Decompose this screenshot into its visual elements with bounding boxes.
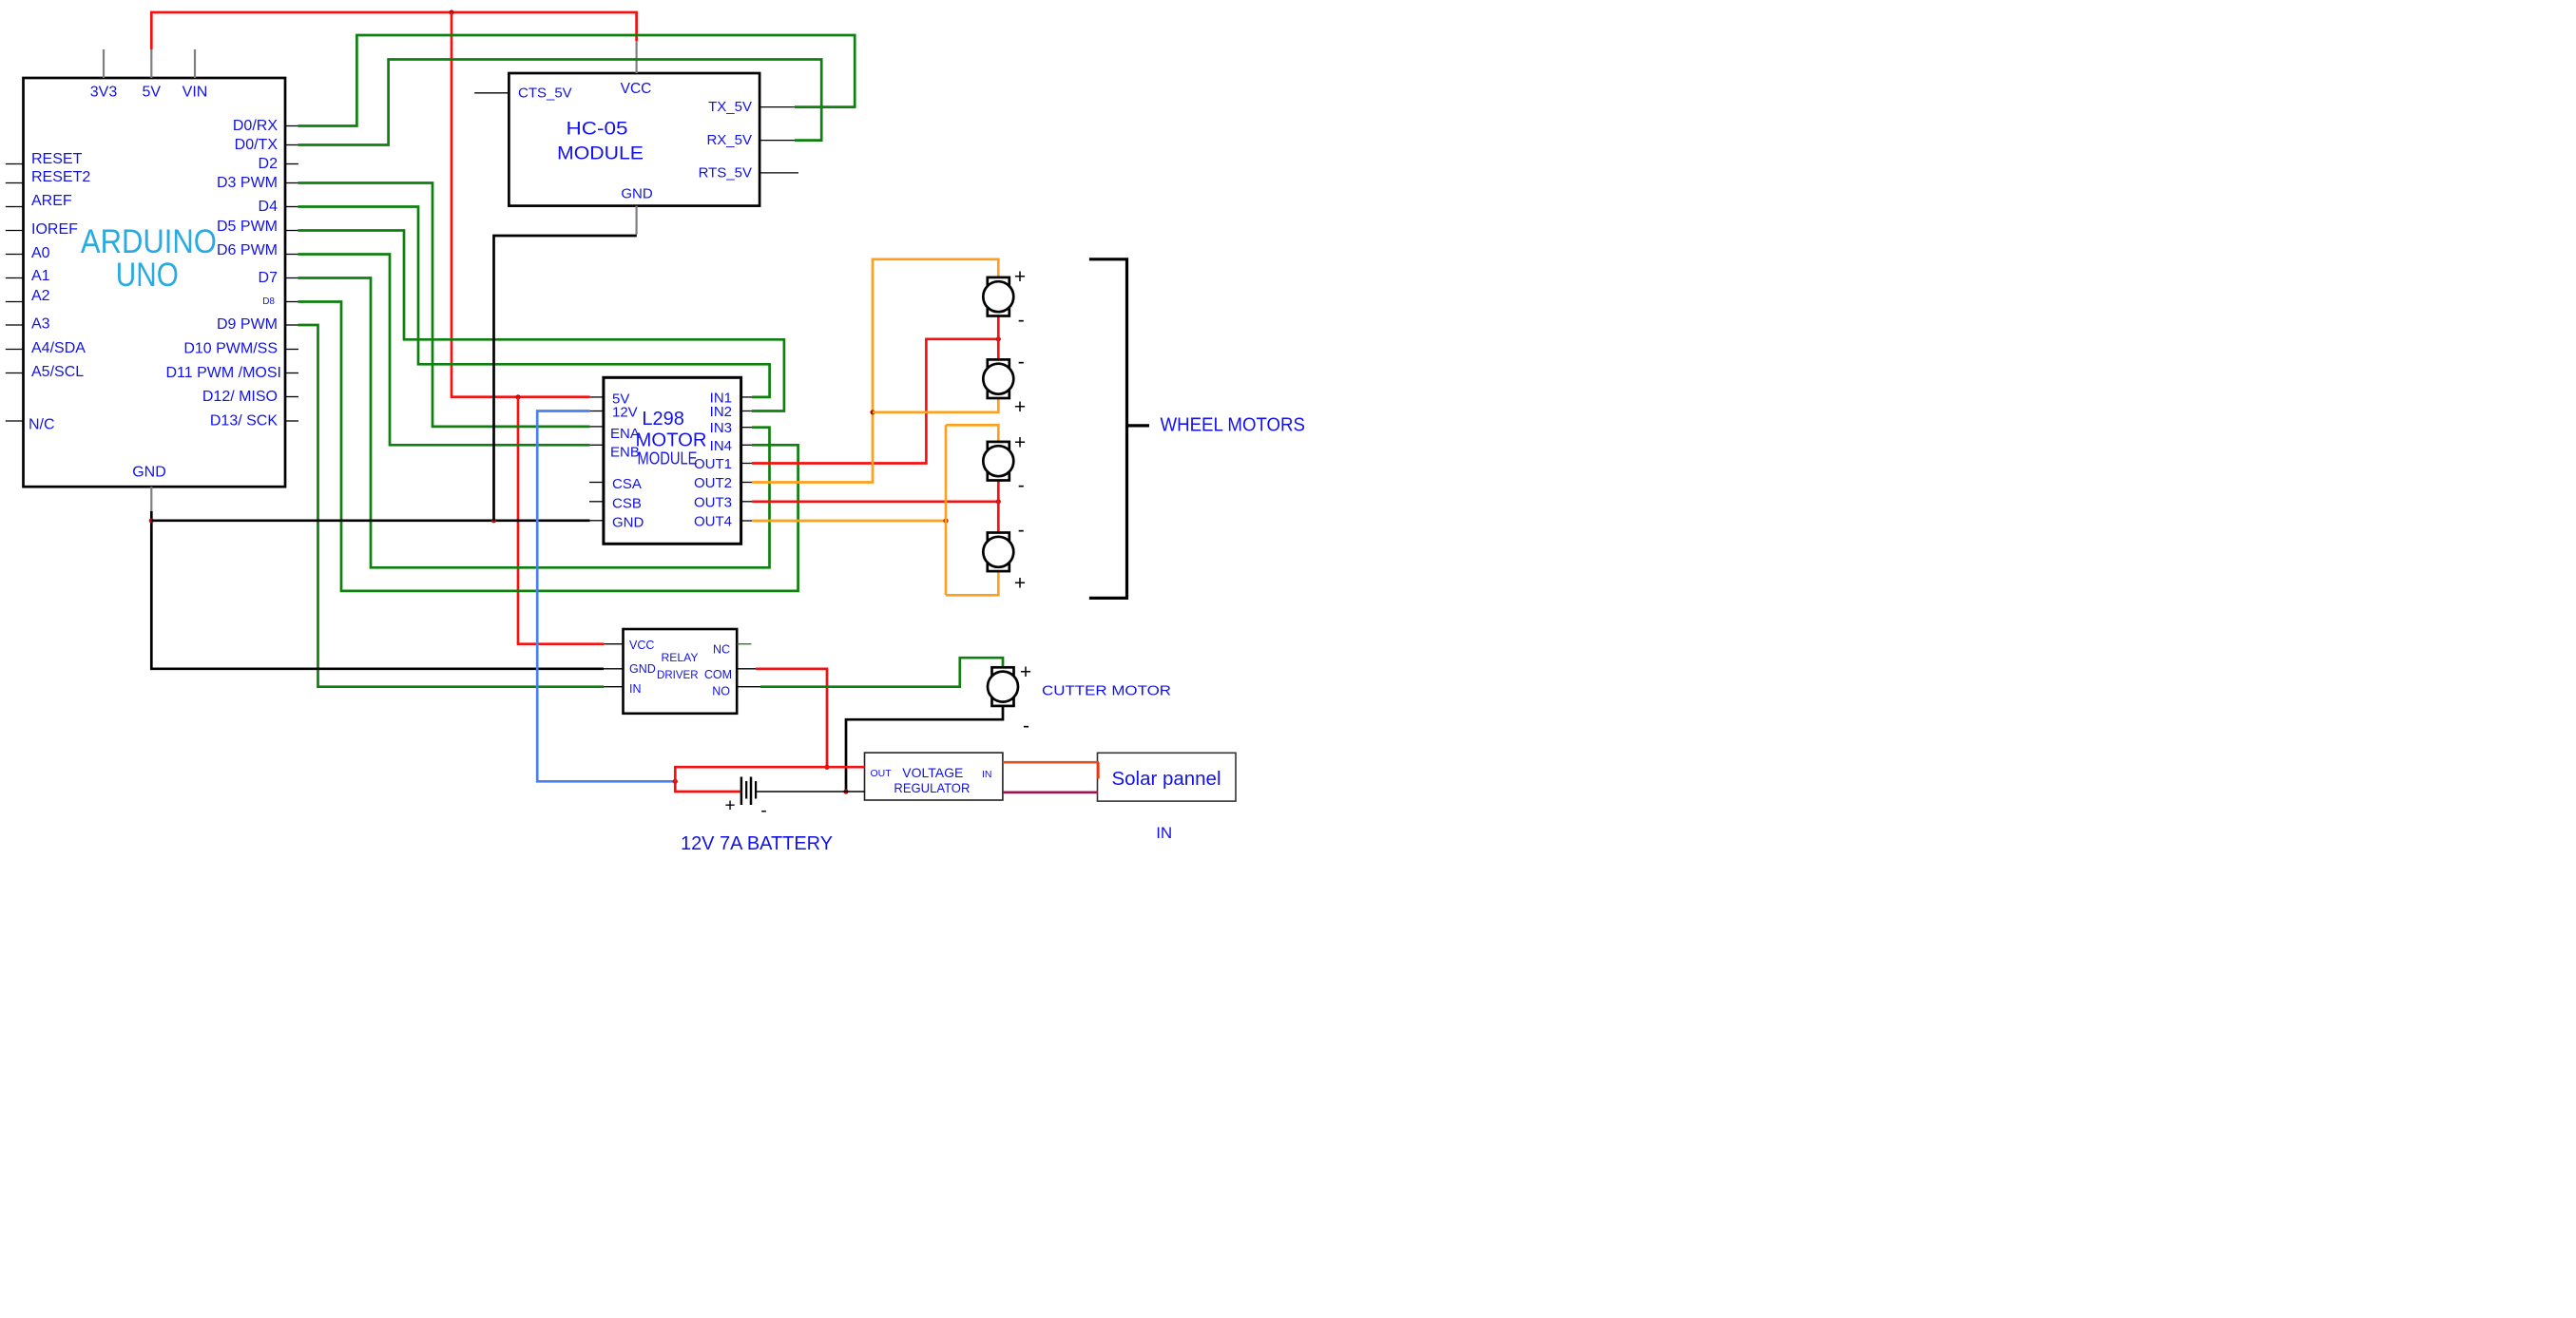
pin stub CSA bbox=[589, 482, 604, 484]
battery plate long 2 bbox=[750, 777, 753, 806]
svg-text:A3: A3 bbox=[31, 316, 50, 333]
svg-text:D12/ MISO: D12/ MISO bbox=[202, 389, 278, 405]
motor M2 body bbox=[983, 364, 1013, 394]
pin stub 3V3 bbox=[103, 49, 105, 78]
pin stub NO bbox=[737, 686, 760, 688]
svg-text:VIN: VIN bbox=[183, 85, 208, 101]
junction GND arduino bbox=[149, 518, 154, 523]
battery plate short 2 bbox=[755, 781, 757, 799]
svg-text:D8: D8 bbox=[262, 296, 275, 307]
svg-text:D4: D4 bbox=[259, 199, 279, 215]
wire red 5V arduino to HC-05 VCC bbox=[151, 12, 636, 49]
module box U1 ARDUINO UNO bbox=[24, 78, 286, 487]
module box Solar pannel bbox=[1098, 753, 1237, 801]
wire green D4 to IN1 bbox=[298, 207, 770, 397]
wire green D0/TX to RX_5V bbox=[298, 60, 822, 145]
pin stub D0/TX bbox=[285, 144, 298, 146]
svg-text:RESET2: RESET2 bbox=[31, 169, 90, 185]
pin stub IOREF bbox=[6, 230, 24, 232]
svg-text:VCC: VCC bbox=[621, 81, 652, 97]
battery plate short 1 bbox=[745, 781, 747, 799]
svg-text:D7: D7 bbox=[259, 270, 279, 286]
motor M2 plates bbox=[988, 359, 1009, 367]
junction COM battery bbox=[824, 765, 829, 770]
svg-text:A0: A0 bbox=[31, 245, 50, 261]
wire green D7 to IN3 bbox=[298, 278, 770, 568]
pin stub GND (arduino bottom) bbox=[150, 487, 152, 511]
pin stub RX_5V bbox=[759, 140, 795, 142]
svg-text:COM: COM bbox=[704, 668, 732, 681]
pin stub OUT1 bbox=[741, 463, 752, 465]
pin stub A2 bbox=[6, 301, 24, 303]
svg-text:VCC: VCC bbox=[629, 639, 654, 652]
svg-text:OUT4: OUT4 bbox=[694, 514, 732, 530]
junction OUT4 bbox=[943, 518, 948, 523]
svg-text:CUTTER MOTOR: CUTTER MOTOR bbox=[1042, 683, 1171, 699]
pin stub OUT3 bbox=[741, 501, 752, 503]
svg-text:RESET: RESET bbox=[31, 151, 83, 167]
svg-text:D11 PWM /MOSI: D11 PWM /MOSI bbox=[166, 365, 282, 381]
pin stub IN (relay) bbox=[604, 686, 624, 688]
pin stub CTS_5V bbox=[474, 92, 509, 94]
wire orange branch to motor2+ bbox=[873, 398, 998, 412]
svg-text:+: + bbox=[724, 796, 735, 816]
pin stub RTS_5V bbox=[759, 172, 798, 174]
svg-text:MODULE: MODULE bbox=[557, 144, 644, 164]
svg-text:DRIVER: DRIVER bbox=[657, 670, 699, 681]
svg-text:CSA: CSA bbox=[612, 476, 642, 492]
svg-text:+: + bbox=[1014, 266, 1026, 288]
pin stub OUT4 bbox=[741, 520, 752, 522]
svg-text:5V: 5V bbox=[143, 85, 162, 101]
pin stub D3 bbox=[285, 182, 298, 184]
svg-text:MOTOR: MOTOR bbox=[636, 430, 707, 450]
svg-text:12V 7A BATTERY: 12V 7A BATTERY bbox=[681, 833, 833, 854]
cutter motor body bbox=[988, 672, 1018, 702]
svg-text:+: + bbox=[1020, 661, 1031, 683]
wire purple regulator IN- to solar bbox=[1003, 791, 1098, 793]
bracket mid tick bbox=[1127, 424, 1150, 427]
svg-text:+: + bbox=[1014, 573, 1026, 595]
svg-text:HC-05: HC-05 bbox=[567, 120, 628, 140]
wire orange to motor3+ bbox=[946, 425, 998, 442]
bracket WHEEL MOTORS bbox=[1089, 259, 1127, 599]
svg-text:OUT3: OUT3 bbox=[694, 494, 732, 510]
svg-text:OUT1: OUT1 bbox=[694, 456, 732, 472]
svg-text:REGULATOR: REGULATOR bbox=[894, 780, 970, 795]
svg-text:A1: A1 bbox=[31, 268, 50, 284]
svg-text:MODULE: MODULE bbox=[638, 449, 698, 468]
motor M3 plates bbox=[988, 442, 1009, 449]
svg-text:TX_5V: TX_5V bbox=[708, 99, 752, 115]
pin stub VCC (HC-05) bbox=[635, 41, 637, 73]
battery plate long 1 bbox=[740, 777, 743, 806]
wire green D6 to ENB bbox=[298, 255, 590, 446]
pin stub D11 bbox=[285, 372, 298, 374]
wire black cutter motor minus to battery- bbox=[846, 706, 1003, 792]
wire red solar edge drop bbox=[1097, 762, 1100, 778]
svg-text:Solar pannel: Solar pannel bbox=[1112, 769, 1221, 790]
pin stub VCC (relay) bbox=[604, 643, 624, 645]
junction blue at battery red bbox=[673, 779, 678, 784]
junction cutter minus battery bbox=[843, 789, 848, 793]
pin stub GND (HC-05) bbox=[635, 206, 637, 235]
pin stub D9 bbox=[285, 324, 298, 326]
svg-text:D5 PWM: D5 PWM bbox=[217, 219, 278, 235]
svg-text:-: - bbox=[1018, 520, 1025, 542]
svg-text:IN: IN bbox=[1156, 824, 1172, 842]
svg-text:CSB: CSB bbox=[612, 495, 642, 511]
pin stub GND (L298) bbox=[590, 520, 604, 522]
wire black HC-05 GND down bbox=[494, 236, 637, 521]
svg-text:N/C: N/C bbox=[29, 417, 55, 433]
svg-text:UNO: UNO bbox=[116, 256, 179, 294]
svg-text:OUT: OUT bbox=[871, 768, 893, 779]
wire red OUT1 to motors 1-2 bbox=[752, 339, 998, 464]
junction OUT3 motor link bbox=[996, 499, 1001, 504]
pin stub GND (relay) bbox=[604, 668, 624, 670]
pin stub D2 bbox=[285, 163, 298, 165]
wire black GND arduino down to relay GND bbox=[151, 511, 604, 669]
pin stub IN4 bbox=[741, 444, 752, 446]
wire green D3 to ENA bbox=[298, 183, 590, 427]
pin stub TX_5V bbox=[759, 106, 795, 108]
pin stub ENA bbox=[590, 426, 604, 428]
svg-text:AREF: AREF bbox=[31, 193, 72, 209]
wire dark orange regulator IN+ to solar bbox=[1003, 761, 1099, 764]
pin stub VIN bbox=[194, 49, 196, 78]
wire green D9 to relay IN bbox=[298, 325, 605, 687]
wire green D0/RX to TX_5V bbox=[298, 35, 855, 126]
svg-text:-: - bbox=[1023, 716, 1029, 737]
svg-text:L298: L298 bbox=[642, 409, 684, 430]
pin stub OUT2 bbox=[741, 482, 752, 484]
svg-text:D2: D2 bbox=[259, 156, 279, 172]
wire green D5 to IN2 bbox=[298, 231, 784, 411]
pin stub IN2 bbox=[741, 411, 752, 412]
svg-text:ARDUINO: ARDUINO bbox=[81, 222, 217, 260]
svg-text:RELAY: RELAY bbox=[662, 653, 699, 664]
svg-text:GND: GND bbox=[629, 662, 656, 676]
pin stub IN3 bbox=[741, 427, 752, 429]
wire orange vertical motor3+/motor4+ bbox=[945, 425, 948, 595]
svg-text:A4/SDA: A4/SDA bbox=[31, 340, 86, 356]
svg-text:D10 PWM/SS: D10 PWM/SS bbox=[183, 341, 278, 357]
wire green relay NO to cutter motor bbox=[760, 658, 1003, 687]
pin stub RESET2 bbox=[6, 182, 24, 184]
svg-text:D0/TX: D0/TX bbox=[235, 137, 279, 153]
svg-text:+: + bbox=[1014, 396, 1026, 418]
pin stub A1 bbox=[6, 277, 24, 279]
pin stub D8 bbox=[285, 301, 298, 303]
svg-text:-: - bbox=[1018, 351, 1025, 372]
wire black GND horizontal to L298 GND bbox=[151, 519, 589, 522]
svg-text:IN: IN bbox=[982, 769, 992, 780]
pin stub A0 bbox=[6, 254, 24, 256]
pin stub D10 bbox=[285, 349, 298, 351]
module box VOLTAGE REGULATOR bbox=[865, 753, 1003, 800]
svg-text:IN: IN bbox=[629, 682, 642, 696]
svg-text:IN2: IN2 bbox=[710, 404, 732, 420]
pin stub ENB bbox=[590, 444, 604, 446]
junction 5V top bbox=[449, 10, 453, 14]
svg-text:D0/RX: D0/RX bbox=[233, 118, 278, 134]
wire red battery plus net bbox=[675, 767, 864, 792]
junction 5V at L298 row bbox=[515, 394, 520, 399]
pin stub CSB bbox=[589, 501, 604, 503]
svg-text:D9 PWM: D9 PWM bbox=[217, 316, 278, 333]
svg-text:D6 PWM: D6 PWM bbox=[217, 242, 278, 258]
wire orange OUT4 horizontal bbox=[752, 520, 946, 523]
cutter motor plates bbox=[992, 667, 1014, 675]
wire orange OUT2 to motor1+ bbox=[752, 259, 998, 483]
svg-text:-: - bbox=[1018, 475, 1025, 497]
svg-text:A2: A2 bbox=[31, 288, 50, 304]
svg-text:-: - bbox=[1018, 310, 1025, 332]
pin stub 12V (L298) bbox=[590, 411, 604, 412]
wire red 5V drop to L298 bbox=[452, 12, 590, 397]
wire orange to motor4+ bbox=[946, 571, 998, 595]
junction OUT2 branch bbox=[870, 410, 875, 414]
module box L298 bbox=[604, 377, 741, 544]
wire red relay COM down to battery+ bbox=[756, 669, 827, 768]
svg-text:NO: NO bbox=[712, 685, 730, 698]
svg-text:D13/ SCK: D13/ SCK bbox=[210, 413, 278, 430]
wire red OUT3 to motors 3-4 bbox=[752, 500, 998, 503]
wire red motor3- to motor4- link bbox=[997, 481, 1000, 533]
svg-text:RX_5V: RX_5V bbox=[706, 132, 752, 148]
svg-text:CTS_5V: CTS_5V bbox=[518, 85, 572, 101]
svg-text:-: - bbox=[760, 801, 766, 821]
svg-text:IN4: IN4 bbox=[710, 438, 732, 454]
pin stub D4 bbox=[285, 206, 298, 208]
wire red motor1- to motor2- link bbox=[997, 316, 1000, 360]
svg-text:IN3: IN3 bbox=[710, 420, 732, 436]
pin stub 5V bbox=[150, 49, 152, 78]
wire blue 12V to battery bbox=[537, 411, 675, 782]
svg-text:3V3: 3V3 bbox=[90, 85, 118, 101]
pin stub N/C bbox=[6, 420, 24, 422]
pin stub AREF bbox=[6, 206, 24, 208]
junction OUT1 motor link bbox=[996, 336, 1001, 341]
motor M3 body bbox=[983, 446, 1013, 476]
svg-text:VOLTAGE: VOLTAGE bbox=[902, 765, 963, 780]
svg-text:ENA: ENA bbox=[610, 426, 640, 442]
pin stub D0/RX bbox=[285, 125, 298, 127]
pin stub A3 bbox=[6, 324, 24, 326]
pin stub D13 bbox=[285, 420, 298, 422]
junction GND HC05 bbox=[491, 518, 496, 523]
svg-text:OUT2: OUT2 bbox=[694, 475, 732, 491]
motor M1 plates bbox=[988, 277, 1009, 285]
svg-text:GND: GND bbox=[132, 465, 166, 481]
pin stub RESET bbox=[6, 163, 24, 165]
module box HC-05 bbox=[509, 73, 759, 206]
pin stub D5 bbox=[285, 230, 298, 232]
svg-text:GND: GND bbox=[621, 186, 653, 202]
pin stub D7 bbox=[285, 277, 298, 279]
motor M4 plates bbox=[988, 533, 1009, 541]
svg-text:GND: GND bbox=[612, 514, 644, 530]
wire green D8 to IN4 bbox=[298, 302, 798, 591]
wire red 5V branch to relay VCC bbox=[518, 397, 604, 644]
motor M1 body bbox=[983, 281, 1013, 312]
svg-text:A5/SCL: A5/SCL bbox=[31, 364, 84, 380]
pin stub A4/SDA bbox=[6, 349, 24, 351]
svg-text:NC: NC bbox=[713, 643, 730, 657]
svg-text:D3 PWM: D3 PWM bbox=[217, 175, 278, 191]
motor M4 body bbox=[983, 537, 1013, 567]
svg-text:WHEEL MOTORS: WHEEL MOTORS bbox=[1161, 414, 1306, 435]
pin stub A5/SCL bbox=[6, 372, 24, 374]
pin stub D6 bbox=[285, 254, 298, 256]
wire black battery minus to regulator bbox=[757, 791, 865, 793]
svg-text:ENB: ENB bbox=[610, 445, 640, 461]
pin stub IN1 bbox=[741, 396, 752, 398]
svg-text:12V: 12V bbox=[612, 405, 638, 421]
pin stub D12 bbox=[285, 396, 298, 398]
svg-text:IOREF: IOREF bbox=[31, 221, 78, 238]
svg-text:RTS_5V: RTS_5V bbox=[699, 164, 752, 181]
pin stub COM bbox=[737, 668, 756, 670]
pin stub 5V (L298) bbox=[590, 396, 604, 398]
pin stub NC (green) bbox=[737, 643, 751, 645]
svg-text:+: + bbox=[1014, 432, 1026, 454]
module box RELAY DRIVER bbox=[624, 629, 738, 714]
